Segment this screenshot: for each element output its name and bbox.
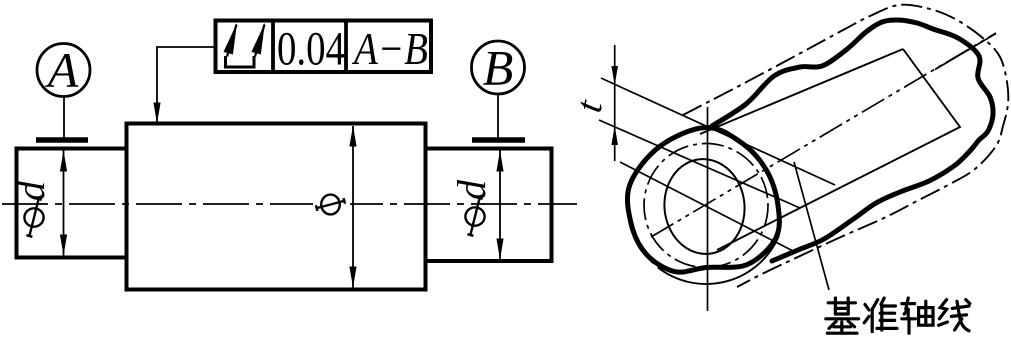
character JI (base) xyxy=(826,298,859,333)
datum axis dash-dot xyxy=(651,33,996,237)
tolerance boundary bottom-left front arc dash-dot xyxy=(629,220,656,266)
datum axis solid end segment xyxy=(935,34,996,70)
t dimension line xyxy=(614,45,616,161)
label: datum axis (Chinese) xyxy=(826,298,970,333)
shaft right journal xyxy=(426,149,552,262)
actual surface front profile (wavy) xyxy=(627,127,779,272)
svg-text:A: A xyxy=(45,42,79,98)
tangent line upper (t) xyxy=(601,78,835,185)
conjugate centerline of front face xyxy=(620,162,795,252)
dimension line phi-d left xyxy=(63,150,65,256)
vertical centerline of front face xyxy=(707,107,709,311)
datum B circle xyxy=(472,41,525,94)
outer tolerance boundary dash-dot xyxy=(683,5,1008,287)
feature control frame box xyxy=(216,21,432,73)
character XIAN (line) xyxy=(939,300,970,331)
dimension line phi middle xyxy=(352,126,354,288)
svg-text:0.04: 0.04 xyxy=(277,23,345,76)
leader from frame to surface xyxy=(157,47,216,122)
actual surface top and back profile (wavy) xyxy=(712,20,993,261)
centerline of shaft xyxy=(2,203,577,205)
svg-text:d: d xyxy=(449,179,494,200)
shaft left journal xyxy=(17,149,127,258)
svg-text:B: B xyxy=(483,40,514,96)
ideal cylinder bottom front arc xyxy=(658,235,780,284)
dimension line phi-d right xyxy=(499,150,501,260)
inner cylinder back edge and bottom silhouette xyxy=(717,49,960,250)
label phi d left xyxy=(8,180,53,237)
total runout symbol xyxy=(226,56,255,67)
tangent line lower (t) xyxy=(599,120,800,208)
svg-text:A−B: A−B xyxy=(351,23,428,74)
svg-text:d: d xyxy=(8,180,53,201)
datum A stem xyxy=(63,97,65,138)
datum B stem xyxy=(497,94,499,138)
inner cylinder top silhouette xyxy=(700,49,903,134)
inner cylinder front ellipse xyxy=(660,155,749,258)
tolerance zone front circle dash-dot xyxy=(644,144,768,268)
datum B bar xyxy=(472,137,525,143)
label phi d right xyxy=(449,179,494,236)
leader to datum axis xyxy=(794,162,829,290)
label phi middle xyxy=(313,193,350,216)
shaft middle cylinder xyxy=(127,124,426,290)
character ZHOU (axis) xyxy=(902,298,933,333)
datum A circle xyxy=(37,44,90,97)
datum A bar xyxy=(36,137,88,143)
character ZHUN (standard) xyxy=(864,298,897,332)
